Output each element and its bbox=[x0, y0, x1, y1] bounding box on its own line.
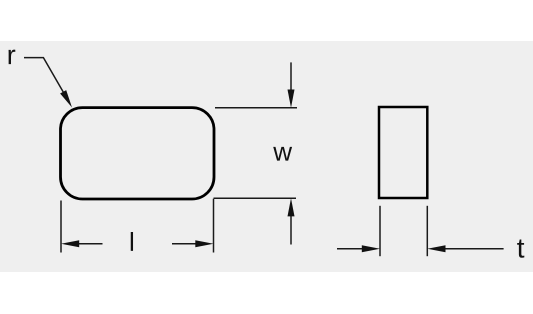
l right arrowhead (pointing right) bbox=[195, 240, 213, 247]
w top extension line bbox=[215, 107, 297, 109]
w bottom extension line bbox=[214, 197, 297, 199]
l dimension line left segment bbox=[76, 243, 103, 245]
t right arrow tail bbox=[443, 248, 503, 250]
l dimension line right segment bbox=[172, 243, 199, 245]
l left extension line bbox=[60, 201, 62, 253]
leader line for corner radius r bbox=[24, 58, 68, 101]
w bottom arrowhead (up) bbox=[288, 198, 295, 216]
svg-text:r: r bbox=[7, 40, 16, 70]
t left arrow tail bbox=[337, 248, 364, 250]
w top arrowhead (down) bbox=[288, 90, 295, 108]
arrowhead of r leader bbox=[60, 90, 72, 107]
w top arrow stem bbox=[290, 62, 292, 92]
t right arrowhead (pointing left) bbox=[427, 245, 445, 252]
svg-text:t: t bbox=[517, 233, 525, 264]
svg-text:l: l bbox=[129, 227, 135, 257]
svg-text:w: w bbox=[272, 137, 292, 167]
side view insert outline bbox=[379, 107, 427, 198]
t left arrowhead (pointing right) bbox=[362, 245, 380, 252]
l right extension line bbox=[213, 199, 215, 253]
plan view insert outline (rounded square) bbox=[61, 108, 215, 199]
gray drawing panel bbox=[0, 41, 533, 272]
w bottom arrow stem bbox=[290, 214, 292, 245]
t right extension line bbox=[426, 206, 428, 256]
l left arrowhead (pointing left) bbox=[61, 240, 79, 247]
t left extension line bbox=[379, 206, 381, 256]
